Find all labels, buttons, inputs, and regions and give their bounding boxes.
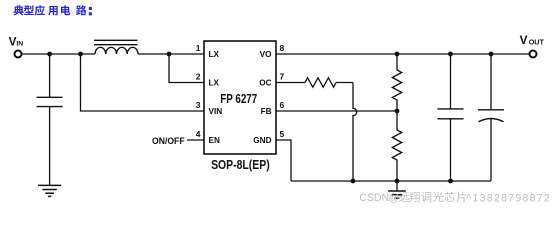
svg-text:2: 2 xyxy=(196,72,201,82)
wire FB pin6 xyxy=(276,110,397,112)
svg-text:4: 4 xyxy=(196,129,201,139)
label ON/OFF xyxy=(152,135,185,146)
wire VO rail xyxy=(276,53,529,55)
svg-text:GND: GND xyxy=(253,136,271,145)
watermark phone xyxy=(466,192,551,204)
svg-text:CSDN: CSDN xyxy=(359,192,389,204)
watermark CJK 远翔调光芯片 xyxy=(399,192,466,202)
resistor R1 upper divider xyxy=(392,54,401,111)
pin 3 label xyxy=(196,100,201,110)
pin name GND xyxy=(253,136,271,145)
wire ROC vertical with hop over FB xyxy=(353,83,357,182)
wire input cap top lead xyxy=(49,54,51,97)
capacitor C2 polarized xyxy=(478,54,504,181)
node junction ground rail xyxy=(395,179,400,184)
svg-text:8: 8 xyxy=(280,43,285,53)
wire bottom rail xyxy=(291,180,491,182)
pin name EN xyxy=(209,136,220,145)
node junction C1 top xyxy=(448,52,453,57)
pin 1 label xyxy=(196,43,201,53)
pin name OC xyxy=(259,79,271,88)
svg-text:OC: OC xyxy=(259,79,271,88)
op-amp U1 FP6277 body xyxy=(204,41,276,154)
svg-text:7: 7 xyxy=(280,72,285,82)
ground right xyxy=(388,181,406,198)
svg-text:VO: VO xyxy=(260,50,272,59)
watermark @ xyxy=(389,192,400,204)
capacitor CIN xyxy=(37,97,63,106)
pin name FB xyxy=(261,107,272,116)
svg-text:3: 3 xyxy=(196,100,201,110)
node junction C2 top xyxy=(489,52,494,57)
svg-text:SOP-8L(EP): SOP-8L(EP) xyxy=(211,157,270,172)
pin 2 label xyxy=(196,72,201,82)
resistor ROC xyxy=(305,78,336,87)
pin 6 label xyxy=(280,100,285,110)
wire ROC to drop xyxy=(336,82,353,84)
pin name LX1 xyxy=(209,50,220,59)
svg-text:OUT: OUT xyxy=(529,37,545,46)
svg-text:^13828798872: ^13828798872 xyxy=(466,192,551,204)
label FP 6277 xyxy=(220,91,257,106)
ground left xyxy=(38,185,61,196)
wire pin2 branch xyxy=(169,54,204,83)
wire inductor to pin 1 xyxy=(138,53,204,55)
wire OC pin7 lead xyxy=(276,82,305,84)
node junction lx2 branch xyxy=(167,52,172,57)
title 典型应用电路： xyxy=(14,5,92,15)
watermark CSDN xyxy=(359,192,389,204)
label SOP-8L(EP) xyxy=(211,157,270,172)
svg-text:LX: LX xyxy=(209,50,220,59)
svg-text:FB: FB xyxy=(261,107,272,116)
wire vin pin3 branch xyxy=(81,54,205,111)
node junction ROC bottom xyxy=(351,179,356,184)
wire GND pin5 xyxy=(276,140,291,181)
pin 4 label xyxy=(196,129,201,139)
wire EN pin4 xyxy=(187,139,204,141)
node junction VO rail R1 xyxy=(395,52,400,57)
svg-text:FP 6277: FP 6277 xyxy=(220,91,257,106)
wire VIN rail to inductor xyxy=(22,53,95,55)
svg-text:ON/OFF: ON/OFF xyxy=(152,135,185,146)
resistor R2 lower divider xyxy=(392,111,401,181)
node junction C1 bottom xyxy=(448,179,453,184)
node VIN terminal xyxy=(9,34,24,57)
svg-text:5: 5 xyxy=(280,129,285,139)
node VOUT terminal xyxy=(520,33,545,57)
pin name VIN xyxy=(209,107,223,116)
inductor L1 xyxy=(94,40,138,54)
node junction vin branch xyxy=(78,52,83,57)
capacitor C1 xyxy=(438,54,464,181)
node FB divider junction xyxy=(395,109,400,114)
svg-text:IN: IN xyxy=(16,40,23,47)
svg-text:V: V xyxy=(9,34,17,48)
svg-text:1: 1 xyxy=(196,43,201,53)
svg-text:EN: EN xyxy=(209,136,220,145)
svg-text:V: V xyxy=(520,33,528,47)
pin 5 label xyxy=(280,129,285,139)
svg-text:VIN: VIN xyxy=(209,107,223,116)
pin 7 label xyxy=(280,72,285,82)
pin name LX2 xyxy=(209,79,220,88)
node junction input cap xyxy=(47,52,52,57)
wire input cap bottom lead xyxy=(49,107,51,185)
pin 8 label xyxy=(280,43,285,53)
svg-text:6: 6 xyxy=(280,100,285,110)
svg-text:LX: LX xyxy=(209,79,220,88)
pin name VO xyxy=(260,50,272,59)
svg-text:@: @ xyxy=(389,192,400,204)
